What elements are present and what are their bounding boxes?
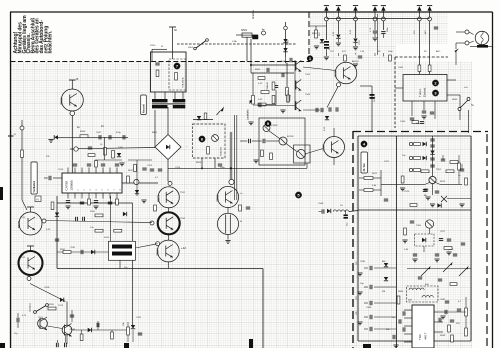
svg-text:T542: T542: [305, 74, 311, 76]
dial lamp: [475, 31, 489, 45]
cap elco 2200: [370, 94, 375, 96]
cap elco spk: [344, 215, 348, 217]
svg-text:100n: 100n: [388, 51, 394, 53]
resistor col x105: [104, 148, 107, 156]
svg-text:T511: T511: [20, 217, 26, 219]
wire ratio spine: [429, 228, 431, 234]
cap mid column: [218, 163, 222, 165]
switch S ignition: [196, 41, 206, 49]
wire elbow mains top: [152, 48, 167, 50]
resistor col x113: [112, 151, 115, 159]
wire bl x72 branch: [71, 310, 73, 322]
svg-text:T543: T543: [305, 94, 311, 96]
svg-text:C585: C585: [366, 307, 372, 309]
connector circle mains return: [74, 147, 78, 151]
connector circle above T526: [229, 179, 234, 184]
svg-text:FM: FM: [382, 291, 385, 293]
tuner unit dashed outline: [394, 57, 396, 128]
IF coil a: [409, 288, 424, 290]
IF module board outline: [357, 136, 359, 341]
svg-text:C541: C541: [280, 61, 286, 63]
resistor R tone: [258, 103, 266, 106]
transistor T521: [263, 125, 270, 132]
transistor T533: [157, 240, 179, 262]
svg-text:AFC: AFC: [436, 50, 441, 53]
wire bridge output down: [167, 160, 169, 182]
wire antenna feed x251: [250, 39, 252, 65]
transistor T532 power: [158, 212, 180, 234]
row above boundary: [412, 121, 419, 124]
fuse Si501: [242, 33, 252, 37]
svg-text:C573: C573: [404, 191, 410, 193]
wire into regulator box: [172, 52, 174, 59]
resistor bl under: [80, 334, 83, 341]
wire af y110 out: [303, 109, 320, 111]
wire mains return to bridge: [78, 148, 155, 149]
transistor T511: [19, 212, 42, 235]
diode D501: [283, 39, 287, 43]
bottom mid parts: [127, 327, 130, 335]
left column grounds: [357, 272, 362, 274]
wire tone y104: [266, 104, 276, 106]
page border right: [492, 12, 494, 348]
resistor af b: [272, 96, 275, 104]
resistor in regulator box2: [207, 147, 210, 155]
rail stem to tuner a: [418, 21, 420, 74]
wire supply bus y268.5: [57, 268, 263, 270]
svg-text:1209(M): 1209(M): [70, 180, 74, 190]
wire IF y198: [447, 198, 471, 200]
IF box bottom: [358, 340, 412, 342]
wire diode chain x285: [285, 22, 287, 57]
IF spine caps: [430, 138, 434, 140]
svg-text:M: M: [240, 221, 242, 223]
ratio parts: [413, 253, 417, 255]
tuner bottom caps: [422, 110, 426, 112]
wire battery input vertical x172: [172, 27, 174, 52]
rail stem components 2: [337, 21, 339, 34]
cap C518: [80, 250, 82, 254]
wire box2 drop left: [201, 158, 203, 168]
wire motor to ground: [227, 235, 229, 240]
svg-text:T513: T513: [58, 305, 64, 307]
wire y252 row: [57, 251, 108, 253]
IF coil b: [422, 296, 433, 298]
cap on x57: [55, 238, 59, 240]
rail stem components 1: [325, 21, 327, 40]
diode above box2: [197, 116, 201, 120]
wire af y65: [251, 64, 295, 66]
white notch above tuner unit: [396, 44, 448, 61]
wire y203 link: [57, 202, 133, 204]
resistor R517: [95, 229, 103, 232]
svg-text:T532: T532: [180, 218, 186, 220]
wire y116 horiz: [193, 119, 213, 121]
wire af y105: [253, 104, 295, 107]
label box N: [35, 196, 41, 202]
wire speaker out: [349, 211, 358, 212]
scan mark left edge b: [0, 343, 5, 348]
transistor T531: [158, 187, 179, 208]
measuring point 1: [307, 56, 313, 62]
resistor above box2: [204, 113, 207, 120]
IF right rail: [470, 136, 472, 341]
svg-text:R525: R525: [196, 162, 202, 164]
border tick 31: [8, 135, 14, 137]
svg-text:T561: T561: [436, 169, 442, 171]
IF resistor left b: [364, 189, 373, 192]
svg-text:T531: T531: [180, 192, 186, 194]
lamp connector b: [465, 41, 469, 45]
svg-text:Netzteil: Netzteil: [142, 104, 145, 113]
tick above T512: [27, 245, 34, 247]
IC501 top resistor: [95, 161, 98, 168]
svg-text:2200µ: 2200µ: [374, 95, 376, 102]
svg-text:C507: C507: [96, 132, 102, 134]
svg-text:C510: C510: [58, 169, 64, 171]
regulator box outline: [151, 52, 187, 92]
switch bl: [36, 306, 46, 312]
svg-text:13V: 13V: [414, 30, 416, 34]
wire af to driver: [303, 67, 336, 71]
transistor T546: [324, 137, 345, 158]
IF left rail: [395, 136, 397, 348]
choke box: [108, 241, 135, 260]
diode D514: [91, 250, 95, 254]
label box ZF-Teil: [361, 152, 367, 173]
antenna connector block: [253, 35, 259, 39]
svg-text:R506: R506: [80, 131, 86, 133]
svg-text:TDA: TDA: [418, 334, 422, 340]
trimmer circle: [212, 135, 219, 142]
cap af b: [258, 103, 260, 107]
node junction y168 b: [230, 168, 232, 170]
resistor R516: [95, 214, 103, 217]
IF wire base y184: [381, 183, 425, 185]
wire choke down: [119, 260, 121, 268]
svg-text:Dr511: Dr511: [104, 237, 110, 239]
svg-text:1,5k: 1,5k: [90, 227, 94, 229]
transistor T561: [429, 176, 436, 183]
svg-text:+12: +12: [181, 246, 186, 250]
wire box2 drop right: [214, 158, 216, 168]
cap bl left edge: [16, 318, 18, 322]
svg-text:C587: C587: [440, 299, 446, 301]
scan mark bottom b: [249, 339, 253, 348]
module boundary dash-dot vertical x353: [352, 131, 354, 348]
diode D502: [283, 48, 287, 52]
IC501 box: [62, 173, 122, 193]
module boundary dashed horizontal y62: [11, 61, 311, 63]
transistor T541: [295, 62, 297, 71]
module boundary dashed horizontal y131: [353, 131, 488, 133]
right column wires: [465, 297, 467, 308]
wire fuse drop x247: [246, 37, 248, 61]
diode speaker line: [327, 209, 331, 213]
svg-text:Tuner-: Tuner-: [418, 88, 422, 97]
supply rail arrow 7: [427, 6, 431, 11]
right column resistor b: [465, 328, 468, 336]
svg-text:R571: R571: [372, 173, 378, 175]
cap y137 c: [122, 135, 124, 139]
resistor tone 2: [286, 88, 289, 96]
rail left parts: [315, 30, 318, 38]
tuner bottom pins: [411, 101, 413, 116]
rail stem components 4: [374, 21, 376, 30]
rail stem components 3: [355, 21, 357, 38]
transistor T512 power: [19, 251, 43, 275]
svg-text:AD162: AD162: [352, 60, 359, 63]
module boundary dash-dot vertical x309 top: [308, 12, 310, 62]
IC571 box: [412, 305, 434, 348]
svg-text:ZF-Teil: ZF-Teil: [363, 163, 366, 171]
IC501 pins: [67, 168, 69, 174]
lamp wires: [456, 31, 462, 33]
rail stem components 5: [382, 21, 384, 30]
caps af out: [315, 108, 317, 112]
wire bus drop x263: [262, 269, 264, 348]
connector circle left of T533: [156, 242, 160, 246]
svg-text:R565: R565: [452, 99, 458, 101]
measuring point 5: [295, 192, 301, 198]
graph-paper grid supply-rail block: [308, 12, 448, 62]
AF preamp box: [259, 118, 305, 165]
svg-text:TDA1200: TDA1200: [220, 146, 223, 156]
ground preamp: [253, 159, 258, 161]
wire twin drop to T526: [229, 132, 231, 179]
rail bus y18.5: [326, 18, 429, 20]
wire supply x372: [371, 86, 373, 131]
IF resistor left a: [364, 177, 373, 180]
svg-text:Si501: Si501: [241, 29, 248, 32]
svg-text:Klang: Klang: [290, 94, 292, 101]
svg-text:470µ: 470µ: [116, 132, 122, 134]
svg-text:kHz: kHz: [425, 284, 429, 286]
wire T512 diagonal out: [30, 284, 66, 302]
transistor T514: [62, 325, 72, 335]
ratio cap: [439, 238, 443, 240]
wire bl vertical x67: [66, 302, 68, 326]
left column caps: [369, 266, 371, 270]
svg-text:CA758: CA758: [65, 181, 69, 191]
transformer core lines: [152, 103, 185, 105]
wire T546 stub: [333, 128, 335, 137]
measuring point 6: [199, 136, 205, 142]
cap y137 a: [98, 135, 100, 139]
connector circle top of diode chain: [284, 26, 288, 30]
measuring point 4: [361, 141, 367, 147]
measuring point 3: [432, 90, 438, 96]
supply rail arrow 6: [417, 6, 421, 11]
wire T532-T533: [168, 234, 170, 240]
wire bus y168: [168, 167, 307, 169]
diode at x57: [55, 213, 59, 217]
pot arrows: [421, 268, 429, 276]
resistor R regulator: [175, 73, 178, 81]
wire feed x57: [56, 196, 58, 269]
svg-text:Einheit: Einheit: [423, 88, 427, 97]
wire col x104: [104, 137, 106, 160]
diode D to gnd left: [54, 135, 58, 139]
diode bl mid: [88, 328, 92, 332]
svg-text:R573: R573: [440, 181, 446, 183]
IF input rows: [409, 142, 412, 145]
svg-text:C561: C561: [398, 67, 404, 69]
diode bl right: [131, 325, 135, 329]
graph-paper grid main area: [11, 62, 353, 348]
diode bl feed: [60, 298, 64, 302]
wire speaker feed twin: [234, 115, 236, 200]
IC571 left caps: [402, 311, 404, 315]
connector circle under T501: [70, 111, 75, 116]
wire diag T511 to T532: [46, 221, 152, 223]
svg-text:6,2V: 6,2V: [350, 29, 352, 34]
svg-text:R551: R551: [312, 33, 318, 35]
caps bottom edge: [55, 343, 57, 347]
supply rail arrow 1: [324, 6, 328, 11]
wire T545 diag out: [327, 87, 338, 108]
transistor T513: [38, 319, 48, 329]
resistor lamp: [477, 45, 488, 48]
wire preamp links: [269, 131, 280, 139]
wire preamp out: [305, 149, 323, 155]
wire vol branch: [252, 73, 254, 95]
transistor T522: [279, 137, 287, 145]
svg-text:C519: C519: [44, 287, 50, 289]
transistor T523: [297, 150, 306, 159]
cap C in regulator box: [155, 62, 159, 64]
IC501 bottom parts: [66, 200, 70, 202]
arrow lamp line: [455, 48, 460, 52]
connector circle T511 emitter: [42, 219, 46, 223]
potentiometer volume: [252, 96, 255, 105]
connector circle under T512: [27, 277, 31, 281]
cap bl mid: [96, 323, 98, 327]
label box Netzteil: [141, 95, 147, 115]
tuner box: [403, 75, 447, 102]
transformer Tr501 primary bars: [152, 99, 168, 102]
wire T531-T532: [168, 208, 170, 212]
node junction y168 a: [201, 168, 203, 170]
measuring point 7: [174, 63, 180, 69]
svg-text:Vertikalteil: Vertikalteil: [33, 181, 36, 193]
svg-text:8,2V: 8,2V: [287, 40, 290, 45]
svg-text:T565: T565: [416, 225, 422, 227]
wire feedback x110: [110, 196, 112, 241]
tick 15 above T501: [69, 79, 76, 81]
svg-text:R541: R541: [255, 69, 261, 71]
diode af out: [325, 116, 329, 120]
svg-text:Antenne: Antenne: [252, 9, 255, 19]
resistor R506: [80, 135, 88, 138]
wire y137 horizontal: [56, 136, 128, 138]
wire y160: [95, 159, 122, 161]
tuner left pin: [395, 87, 403, 89]
resistor IF base left: [421, 170, 429, 173]
connector circle left of T532: [150, 221, 154, 225]
svg-text:C563: C563: [400, 121, 406, 123]
svg-text:AD162: AD162: [334, 70, 337, 78]
svg-text:220V~: 220V~: [150, 45, 157, 47]
wire far-left to T511: [22, 200, 27, 210]
ratio diode: [422, 238, 426, 242]
IC571 right parts: [444, 310, 446, 314]
tuner right pins: [447, 79, 456, 81]
wire vol y73: [251, 72, 294, 74]
extra small components: [88, 53, 468, 348]
wires box to transformer: [154, 92, 156, 99]
svg-text:100µ: 100µ: [220, 167, 226, 169]
cap tone: [274, 85, 278, 87]
svg-text:BC238: BC238: [287, 136, 294, 138]
connector circle T545: [337, 83, 341, 87]
resistor af a: [272, 82, 275, 90]
AF driver inner box: [294, 145, 311, 163]
resistor preamp b: [270, 153, 273, 160]
wire af spine: [294, 60, 296, 110]
page border left: [10, 12, 12, 348]
svg-text:440 T: 440 T: [424, 332, 428, 340]
svg-text:R583: R583: [398, 291, 404, 293]
svg-text:C571: C571: [384, 161, 390, 163]
wire far-left x22: [21, 120, 23, 200]
svg-text:R531: R531: [60, 249, 66, 251]
svg-text:C581: C581: [360, 261, 366, 263]
svg-text:C514: C514: [175, 167, 181, 169]
svg-text:BD234: BD234: [158, 248, 160, 256]
svg-text:R517: R517: [128, 170, 134, 172]
module boundary dash-dot vertical x487: [486, 134, 488, 348]
wire IC out right: [122, 182, 158, 184]
svg-text:BD237: BD237: [218, 194, 220, 202]
transistor T501: [61, 89, 83, 111]
left column resistor: [397, 296, 400, 304]
parts column x137: [134, 165, 137, 172]
transistor T545 driver: [335, 62, 357, 84]
tick +12 above T511: [27, 206, 34, 208]
cap bl x72: [70, 314, 74, 316]
svg-text:Lautstärke: Lautstärke: [247, 109, 250, 120]
svg-text:TCA 280 A: TCA 280 A: [182, 77, 185, 88]
svg-text:R535: R535: [70, 329, 76, 331]
coil speaker line: [333, 210, 349, 212]
resistor bl vert: [111, 332, 114, 339]
IF misc caps: [423, 189, 427, 191]
wire x132 upper: [132, 203, 134, 241]
resistor R535: [48, 307, 56, 310]
cap speaker line: [321, 209, 323, 213]
right column caps: [445, 300, 449, 302]
wire choke to T533: [135, 244, 157, 248]
scan mark bottom c: [363, 344, 371, 348]
lower wire y268: [407, 268, 471, 270]
supply rail arrow 5: [381, 6, 385, 11]
svg-text:BD235: BD235: [19, 220, 21, 228]
cap af in a: [248, 139, 250, 143]
IF spine x432: [432, 136, 434, 177]
ground under motor: [225, 240, 230, 242]
svg-text:BD433: BD433: [62, 97, 64, 105]
transistor T565: [425, 220, 433, 228]
svg-text:T512: T512: [20, 257, 26, 259]
diode IF: [437, 203, 441, 207]
cap af in b: [262, 139, 264, 143]
ratio dashed box: [415, 234, 435, 246]
bridge rectifier diamond: [155, 135, 181, 160]
wire T514 down: [66, 335, 68, 344]
svg-text:15V: 15V: [319, 32, 321, 36]
resistor IF emitter: [401, 176, 404, 183]
